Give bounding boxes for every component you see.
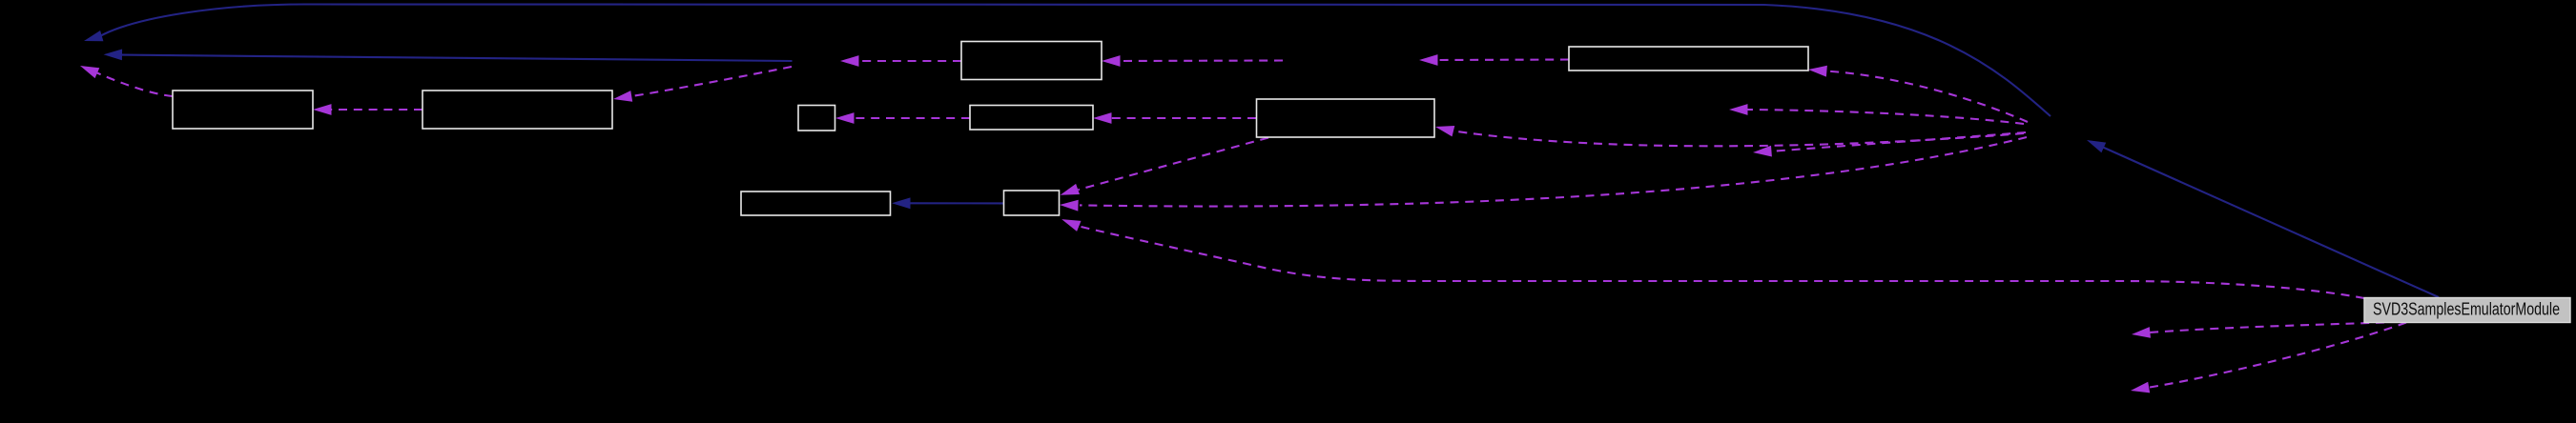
node T4 (top right long) (1569, 47, 1808, 70)
edge dashed hub to node2 (1729, 104, 2024, 124)
edge dashed hub to node3 (1753, 132, 2026, 157)
edge dashed hub to B2 middle (1060, 137, 2027, 211)
edge dashed hub to T4 (1808, 66, 2028, 122)
edge blue arc hub to far-left node (84, 5, 2050, 117)
edge dashed node1 to T1 (1102, 55, 1283, 67)
edge dashed box1 to far-left (80, 66, 173, 96)
node T1 (top mid) (961, 42, 1102, 80)
node box2 (row2 second) (422, 91, 612, 129)
edge dashed gray-module to bottom-node1 (2132, 323, 2384, 338)
node B2 (bottom small) (1004, 191, 1060, 215)
node T2 (970, 106, 1093, 131)
edge dashed T3 to B2 top (1061, 138, 1268, 195)
edge dashed T1 to node0 (840, 55, 961, 67)
edge dashed T3 to T2 (1093, 112, 1256, 124)
node B1 (bottom left) (741, 191, 891, 215)
node box3 (small) (798, 106, 835, 131)
edge dashed gray-module to B2 bottom (1061, 219, 2364, 298)
edge blue line B2 to B1 (892, 197, 1003, 209)
edge dashed hub to T3 (1435, 126, 2024, 146)
edge blue line invisible-node0 to far-left node (104, 50, 793, 62)
edge blue line gray-module to hub (2087, 140, 2439, 297)
edge dashed gray-module to bottom-node2 (2131, 323, 2406, 393)
svg-text:SVD3SamplesEmulatorModule: SVD3SamplesEmulatorModule (2373, 299, 2560, 319)
edge dashed node0 to box2 (613, 67, 792, 102)
node SVD3SamplesEmulatorModule (gray highlighted) (2364, 298, 2570, 323)
edge dashed T2 to box3 (835, 112, 970, 124)
edge dashed box2 to box1 (313, 104, 422, 115)
node box1 (row2 left) (173, 91, 313, 129)
node T3 (1257, 99, 1435, 137)
edge dashed T4 to node1 (1419, 54, 1569, 66)
